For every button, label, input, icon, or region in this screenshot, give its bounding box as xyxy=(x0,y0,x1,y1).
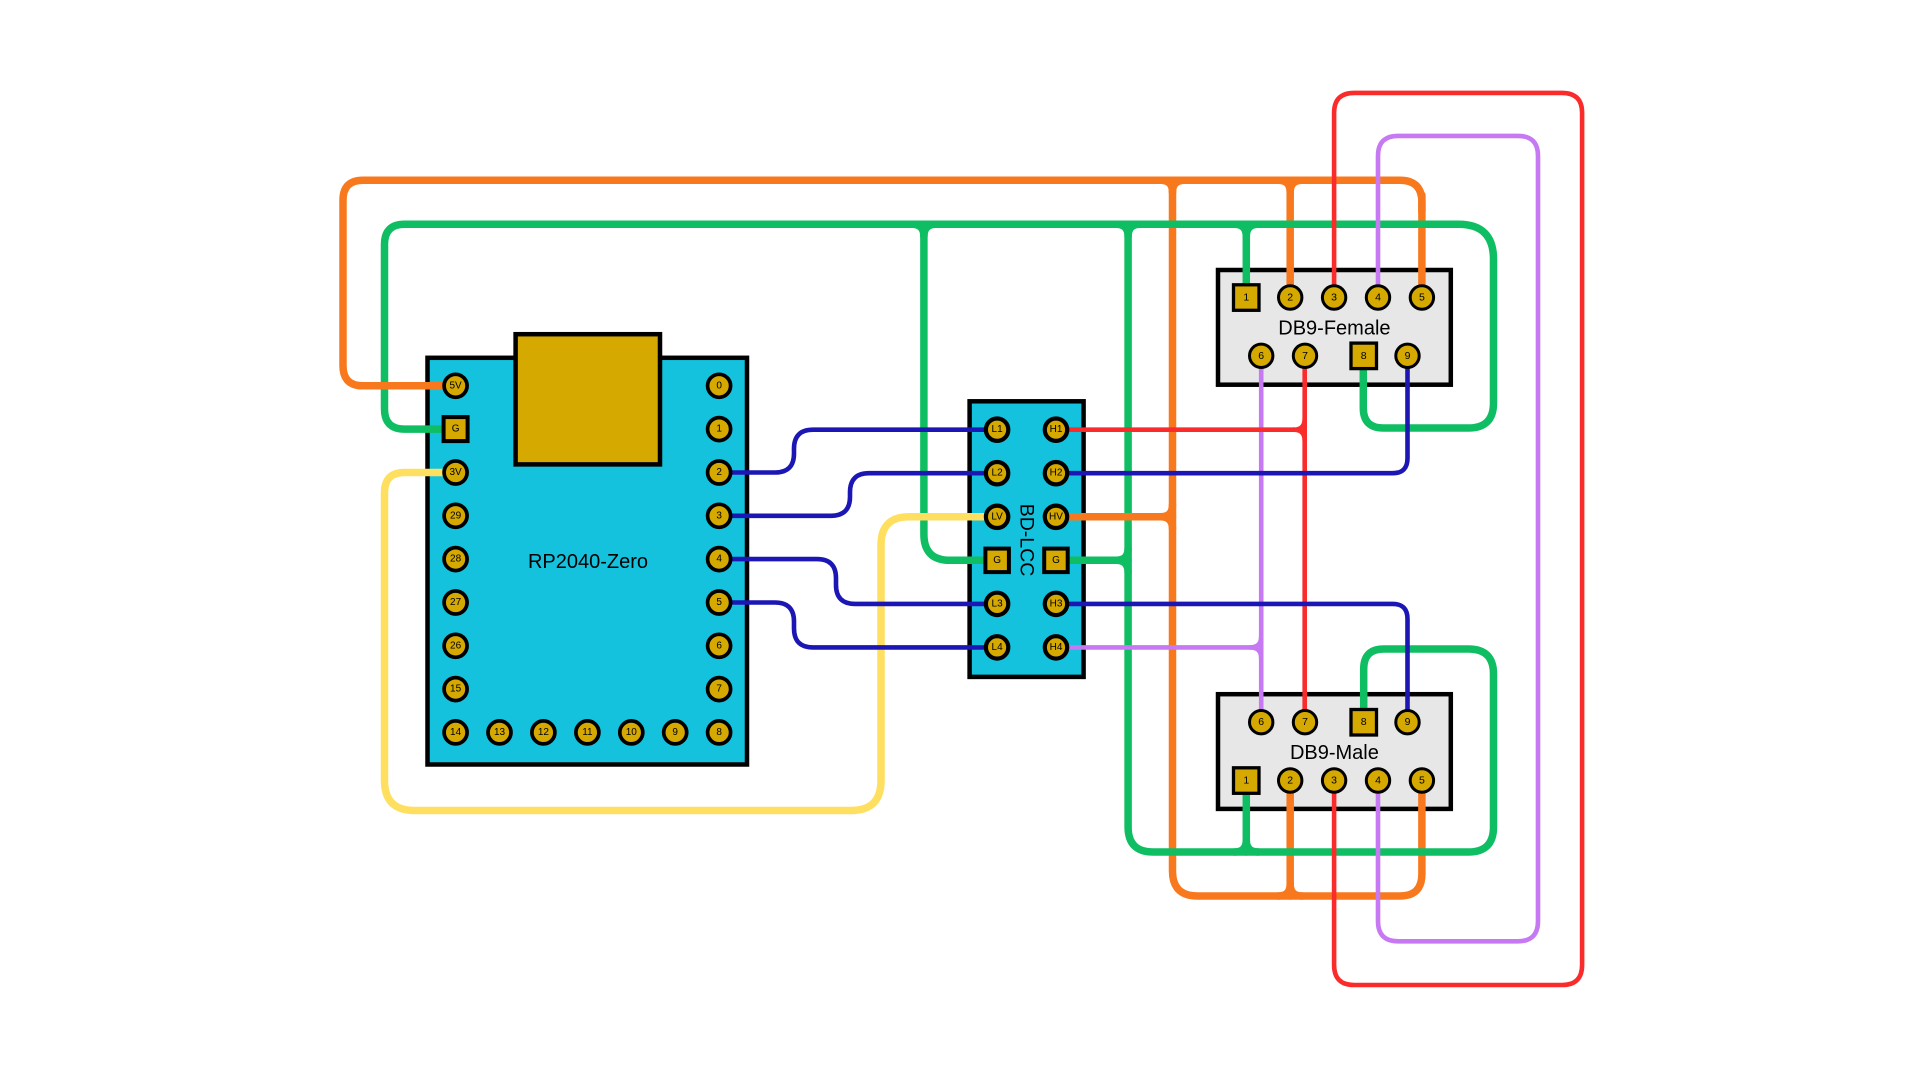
pin L3 of BD-LCC (left) xyxy=(986,593,1008,615)
pin G of BD-LCC (left) xyxy=(985,549,1009,573)
svg-text:G: G xyxy=(1052,555,1060,566)
svg-text:7: 7 xyxy=(716,684,722,695)
svg-text:6: 6 xyxy=(1258,350,1264,362)
pin 8 of RP2040-Zero (right column) xyxy=(708,721,731,744)
pin 6 of DB9-Female xyxy=(1250,344,1273,367)
wire navy: RP2040 pin 2 to BD-LCC L1 xyxy=(719,430,997,473)
pin 1 of DB9-Female xyxy=(1234,285,1260,311)
pin 1 of DB9-Male xyxy=(1234,768,1260,794)
pin 14 of RP2040-Zero (left column) xyxy=(444,721,467,744)
svg-text:BD-LCC: BD-LCC xyxy=(1016,504,1038,577)
pin 13 of RP2040-Zero (bottom row) xyxy=(488,721,511,744)
svg-text:1: 1 xyxy=(1243,292,1249,304)
pin 2 of DB9-Female xyxy=(1279,286,1302,309)
pin 10 of RP2040-Zero (bottom row) xyxy=(620,721,643,744)
wire green branch: up to DB9-Male pin 1 xyxy=(1234,781,1258,853)
svg-text:H1: H1 xyxy=(1050,424,1063,435)
pin G of RP2040-Zero (left column) xyxy=(444,417,468,441)
svg-text:LV: LV xyxy=(991,511,1003,522)
svg-text:27: 27 xyxy=(450,597,462,608)
pin 4 of DB9-Female xyxy=(1366,286,1389,309)
pin H3 of BD-LCC (right) xyxy=(1045,593,1067,615)
pin 9 of DB9-Female xyxy=(1396,344,1419,367)
connector DB9-Male body xyxy=(1218,694,1451,809)
svg-text:28: 28 xyxy=(450,554,462,565)
svg-text:2: 2 xyxy=(716,467,722,478)
pin 12 of RP2040-Zero (bottom row) xyxy=(532,721,555,744)
module BD-LCC body xyxy=(970,401,1084,677)
svg-text:7: 7 xyxy=(1302,716,1308,728)
wire yellow: 3V pin around bottom-left to LV pin of BD-LCC xyxy=(385,473,998,811)
pin 4 of DB9-Male xyxy=(1366,769,1389,792)
usb connector of RP2040-Zero xyxy=(516,334,660,464)
wire red: DB9-Female pin 7 down through junction to DB9-Male pin 7 xyxy=(1302,356,1307,722)
svg-text:DB9-Female: DB9-Female xyxy=(1278,318,1390,340)
pin H1 of BD-LCC (right) xyxy=(1045,419,1067,441)
svg-text:HV: HV xyxy=(1049,511,1063,522)
board RP2040-Zero xyxy=(428,358,748,765)
pin 9 of DB9-Male xyxy=(1396,711,1419,734)
wire green branch: down to DB9-Female pin 1 xyxy=(1234,224,1258,297)
pin 29 of RP2040-Zero (left column) xyxy=(444,504,467,527)
wire violet stub: H4 pin of BD-LCC to junction xyxy=(1056,636,1261,658)
wire orange branch: up to DB9-Male pin 2 xyxy=(1278,781,1302,897)
svg-text:8: 8 xyxy=(716,727,722,738)
svg-text:3V: 3V xyxy=(449,467,462,478)
svg-text:2: 2 xyxy=(1287,775,1293,787)
svg-text:0: 0 xyxy=(716,380,722,391)
wire green branch: down past right G pin to bottom rail, DB9-Male pins 1 and 8 xyxy=(1116,224,1493,852)
svg-text:RP2040-Zero: RP2040-Zero xyxy=(528,551,648,573)
wire violet loop: DB9-Female pin 4 around right side to DB9-Male pin 4 xyxy=(1378,136,1538,941)
svg-text:L1: L1 xyxy=(992,424,1004,435)
svg-text:14: 14 xyxy=(450,727,462,738)
svg-text:12: 12 xyxy=(538,727,550,738)
pin 8 of DB9-Male xyxy=(1351,710,1377,736)
svg-text:L4: L4 xyxy=(992,642,1004,653)
svg-text:8: 8 xyxy=(1361,350,1367,362)
pin HV of BD-LCC (right) xyxy=(1045,506,1067,528)
pin 3 of RP2040-Zero (right column) xyxy=(708,504,731,527)
pin 6 of RP2040-Zero (right column) xyxy=(708,634,731,657)
pin 4 of RP2040-Zero (right column) xyxy=(708,548,731,571)
svg-text:15: 15 xyxy=(450,684,462,695)
wire orange drop: down to DB9-Female pin 5 xyxy=(1418,195,1426,298)
pin 7 of DB9-Female xyxy=(1293,344,1316,367)
pin H2 of BD-LCC (right) xyxy=(1045,462,1067,484)
svg-text:G: G xyxy=(452,424,460,435)
svg-text:8: 8 xyxy=(1361,716,1367,728)
pin 7 of RP2040-Zero (right column) xyxy=(708,678,731,701)
wire navy: RP2040 pin 3 to BD-LCC L2 xyxy=(719,473,997,516)
pin 1 of RP2040-Zero (right column) xyxy=(708,418,731,441)
pin 27 of RP2040-Zero (left column) xyxy=(444,591,467,614)
svg-text:DB9-Male: DB9-Male xyxy=(1290,742,1379,764)
pin 3V of RP2040-Zero (left column) xyxy=(444,461,467,484)
wire navy: BD-LCC H2 to DB9-Female pin 9 xyxy=(1056,356,1408,473)
svg-text:3: 3 xyxy=(1331,775,1337,787)
svg-text:3: 3 xyxy=(716,510,722,521)
wire navy: BD-LCC H3 to DB9-Male pin 9 xyxy=(1056,604,1408,722)
pin 3 of DB9-Male xyxy=(1322,769,1345,792)
svg-text:5V: 5V xyxy=(449,380,462,391)
wire orange branch: top rail down past HV to bottom rail, DB9-Male pins 2 and 5 xyxy=(1173,180,1422,896)
pin 15 of RP2040-Zero (left column) xyxy=(444,678,467,701)
pin 9 of RP2040-Zero (bottom row) xyxy=(664,721,687,744)
wire navy: RP2040 pin 4 to BD-LCC L3 xyxy=(719,559,997,604)
svg-text:7: 7 xyxy=(1302,350,1308,362)
pin 2 of RP2040-Zero (right column) xyxy=(708,461,731,484)
wire red loop: DB9-Female pin 3 around right side to DB9-Male pin 3 xyxy=(1334,93,1582,985)
svg-text:3: 3 xyxy=(1331,292,1337,304)
svg-text:9: 9 xyxy=(1405,716,1411,728)
svg-text:5: 5 xyxy=(1419,775,1425,787)
pin 5V of RP2040-Zero (left column) xyxy=(444,374,467,397)
wire green stub: right G pin of BD-LCC xyxy=(1056,548,1128,572)
svg-text:1: 1 xyxy=(1243,775,1249,787)
pin 28 of RP2040-Zero (left column) xyxy=(444,548,467,571)
pin G of BD-LCC (right) xyxy=(1044,549,1068,573)
pin 0 of RP2040-Zero (right column) xyxy=(708,374,731,397)
svg-text:9: 9 xyxy=(1405,350,1411,362)
svg-text:11: 11 xyxy=(582,727,593,738)
pin 5 of DB9-Female xyxy=(1410,286,1433,309)
svg-text:13: 13 xyxy=(494,727,506,738)
pin 5 of RP2040-Zero (right column) xyxy=(708,591,731,614)
svg-text:29: 29 xyxy=(450,510,462,521)
svg-text:G: G xyxy=(993,555,1001,566)
svg-text:9: 9 xyxy=(672,727,678,738)
wire orange stub: HV pin of BD-LCC xyxy=(1056,505,1173,529)
svg-text:2: 2 xyxy=(1287,292,1293,304)
pin 3 of DB9-Female xyxy=(1322,286,1345,309)
svg-text:4: 4 xyxy=(1375,775,1381,787)
pin L1 of BD-LCC (left) xyxy=(986,419,1008,441)
svg-text:10: 10 xyxy=(626,727,638,738)
pin 6 of DB9-Male xyxy=(1250,711,1273,734)
svg-text:6: 6 xyxy=(1258,716,1264,728)
svg-text:5: 5 xyxy=(716,597,722,608)
pin 5 of DB9-Male xyxy=(1410,769,1433,792)
svg-text:5: 5 xyxy=(1419,292,1425,304)
svg-text:26: 26 xyxy=(450,640,462,651)
pin 8 of DB9-Female xyxy=(1351,343,1377,369)
svg-text:4: 4 xyxy=(716,554,722,565)
svg-text:H2: H2 xyxy=(1050,468,1063,479)
connector DB9-Female body xyxy=(1218,270,1451,385)
pin H4 of BD-LCC (right) xyxy=(1045,636,1067,658)
svg-text:1: 1 xyxy=(716,424,722,435)
pin 26 of RP2040-Zero (left column) xyxy=(444,634,467,657)
svg-text:H3: H3 xyxy=(1050,598,1063,609)
wire red stub: H1 pin of BD-LCC to junction xyxy=(1056,419,1305,441)
wire green: G pin left-up-right along rail to right side down to DB9-Female pin 8 xyxy=(385,224,1494,429)
svg-text:6: 6 xyxy=(716,640,722,651)
wire violet: DB9-Female pin 6 down through junction to DB9-Male pin 6 xyxy=(1259,356,1264,722)
pin LV of BD-LCC (left) xyxy=(986,506,1008,528)
svg-text:H4: H4 xyxy=(1050,642,1063,653)
pin 11 of RP2040-Zero (bottom row) xyxy=(576,721,599,744)
wire navy: RP2040 pin 5 to BD-LCC L4 xyxy=(719,603,997,648)
wire orange: 5V pin left-up-right along top rail to DB9-Female pin 5 corner xyxy=(343,180,1422,386)
pin 2 of DB9-Male xyxy=(1279,769,1302,792)
pin L4 of BD-LCC (left) xyxy=(986,636,1008,658)
wire green branch: down to left G pin of BD-LCC xyxy=(912,224,997,560)
pin L2 of BD-LCC (left) xyxy=(986,462,1008,484)
svg-text:L3: L3 xyxy=(992,598,1004,609)
svg-text:L2: L2 xyxy=(992,468,1004,479)
wire orange branch: down to DB9-Female pin 2 xyxy=(1286,180,1294,297)
pin 7 of DB9-Male xyxy=(1293,711,1316,734)
svg-text:4: 4 xyxy=(1375,292,1381,304)
